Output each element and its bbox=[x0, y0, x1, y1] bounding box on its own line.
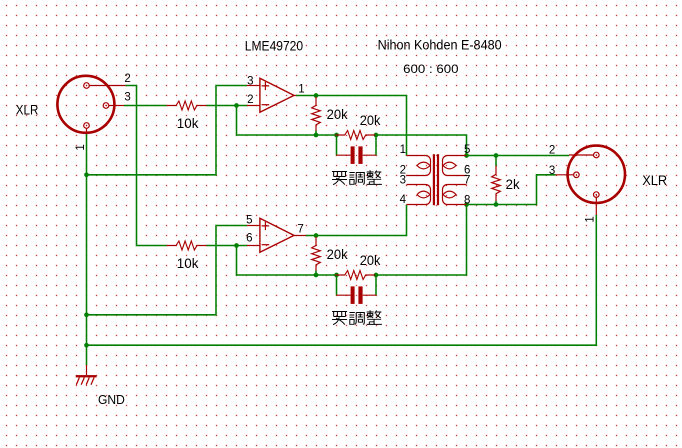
svg-text:20k: 20k bbox=[327, 246, 349, 262]
svg-text:GND: GND bbox=[98, 392, 125, 407]
svg-text:3: 3 bbox=[549, 165, 555, 177]
svg-text:2: 2 bbox=[124, 73, 130, 85]
svg-text:2k: 2k bbox=[506, 177, 520, 192]
svg-text:2: 2 bbox=[549, 145, 555, 157]
svg-text:20k: 20k bbox=[360, 252, 382, 268]
svg-text:5: 5 bbox=[246, 214, 252, 226]
svg-text:XLR: XLR bbox=[16, 103, 39, 118]
svg-text:7: 7 bbox=[464, 175, 470, 187]
svg-text:XLR: XLR bbox=[642, 173, 667, 188]
svg-text:2: 2 bbox=[247, 94, 253, 106]
svg-text:20k: 20k bbox=[360, 112, 382, 128]
svg-text:5: 5 bbox=[464, 144, 470, 156]
svg-text:4: 4 bbox=[400, 194, 407, 206]
svg-text:3: 3 bbox=[124, 91, 130, 103]
svg-text:600 : 600: 600 : 600 bbox=[403, 62, 458, 76]
svg-text:7: 7 bbox=[297, 223, 303, 235]
svg-text:20k: 20k bbox=[327, 106, 349, 122]
svg-text:Nihon Kohden E-8480: Nihon Kohden E-8480 bbox=[378, 36, 502, 52]
svg-text:1: 1 bbox=[75, 144, 87, 150]
svg-text:10k: 10k bbox=[177, 115, 200, 131]
svg-text:1: 1 bbox=[298, 83, 304, 95]
svg-text:1: 1 bbox=[400, 144, 406, 156]
svg-text:8: 8 bbox=[464, 194, 470, 206]
svg-text:LME49720: LME49720 bbox=[245, 39, 304, 54]
svg-text:1: 1 bbox=[585, 216, 597, 222]
svg-text:3: 3 bbox=[400, 174, 406, 186]
svg-text:10k: 10k bbox=[177, 255, 200, 271]
svg-text:3: 3 bbox=[247, 75, 253, 87]
svg-text:6: 6 bbox=[246, 232, 252, 244]
